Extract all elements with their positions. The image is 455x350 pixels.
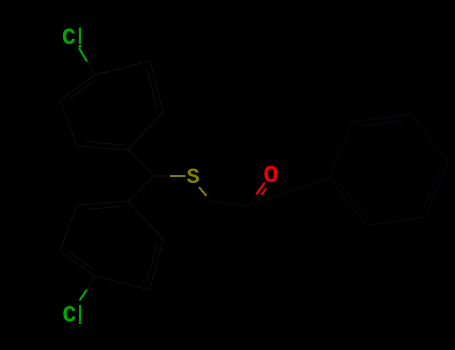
bond ring2-CH	[128, 176, 154, 201]
chlorophenyl ring 1 (top)	[60, 61, 163, 150]
bond ring1-CH	[128, 150, 154, 176]
bond S-CH2 dark half	[207, 196, 213, 202]
bond Cl2-ring dark half	[87, 276, 95, 290]
bond S-CH2 olive half	[199, 187, 207, 196]
svg-text:S: S	[187, 165, 200, 190]
atom label Cl (bottom): l glyph tail	[79, 322, 82, 324]
bond C=O line1 red half	[256, 183, 265, 195]
atom label Cl (top): l glyph tail	[79, 45, 82, 48]
svg-text:C: C	[63, 303, 77, 329]
atom label Cl (bottom): l glyph bar	[79, 305, 81, 322]
svg-text:O: O	[264, 163, 279, 190]
bond C2-phenyl ipso	[248, 178, 330, 206]
bond CH2-C2	[213, 202, 248, 207]
atom label Cl (top): l glyph bar	[79, 28, 81, 44]
bond C=O line2 dark half	[254, 197, 260, 205]
bond Cl1-ring green half	[79, 48, 87, 62]
chlorophenyl ring 2 (bottom)	[60, 201, 163, 290]
bond C=O line1 dark half	[248, 194, 257, 206]
bond Cl1-ring dark half	[87, 62, 95, 76]
phenyl ring (right)	[329, 114, 448, 225]
bond Cl2-ring green half	[80, 290, 88, 301]
bond CH-S olive half	[170, 175, 186, 177]
bond CH-S dark half	[154, 175, 170, 177]
bond C=O line2 red half	[261, 188, 266, 195]
svg-text:C: C	[62, 25, 76, 51]
